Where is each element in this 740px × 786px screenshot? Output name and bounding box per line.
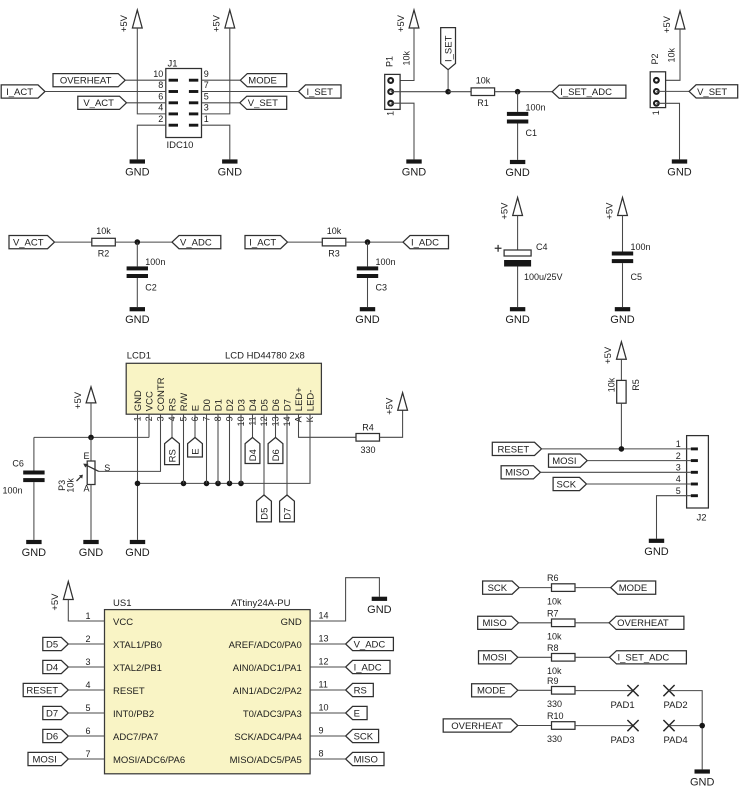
wire US1 pin 14 GND bbox=[310, 578, 379, 621]
potentiometer P2 10k bbox=[650, 72, 665, 108]
svg-text:5: 5 bbox=[204, 92, 209, 102]
svg-text:+5V: +5V bbox=[662, 15, 673, 33]
resistor R3 10k bbox=[322, 238, 346, 246]
svg-text:T0/ADC3/PA3: T0/ADC3/PA3 bbox=[243, 709, 302, 720]
svg-text:D6: D6 bbox=[271, 449, 282, 461]
svg-text:100u/25V: 100u/25V bbox=[524, 272, 563, 282]
svg-text:+5V: +5V bbox=[396, 14, 407, 32]
svg-text:XTAL1/PB0: XTAL1/PB0 bbox=[113, 640, 162, 651]
wire RESET to US1 pin 4 bbox=[68, 689, 104, 691]
svg-text:R9: R9 bbox=[547, 676, 559, 686]
svg-text:CONTR: CONTR bbox=[156, 377, 167, 411]
net flag I_ADC (US1) bbox=[346, 660, 390, 673]
svg-text:I_ADC: I_ADC bbox=[354, 662, 382, 673]
svg-text:GND: GND bbox=[644, 546, 669, 558]
GND rail under LCD bbox=[138, 414, 311, 483]
svg-text:GND: GND bbox=[125, 314, 150, 326]
wire P2 bottom to ground bbox=[656, 103, 679, 159]
wire J1 pin 1 to ground bbox=[202, 125, 230, 159]
net flag SCK (R6) bbox=[483, 581, 519, 594]
ground (C4) bbox=[510, 307, 525, 311]
svg-text:6: 6 bbox=[158, 92, 163, 102]
net flag D6 (LCD) bbox=[268, 438, 283, 464]
svg-text:MOSI/ADC6/PA6: MOSI/ADC6/PA6 bbox=[113, 755, 185, 766]
svg-text:PAD2: PAD2 bbox=[664, 700, 688, 711]
svg-text:VCC: VCC bbox=[113, 617, 133, 628]
svg-text:100n: 100n bbox=[376, 257, 396, 267]
svg-text:7: 7 bbox=[85, 749, 90, 759]
wire +5V to US1 pin 1 bbox=[68, 600, 104, 622]
svg-text:+5V: +5V bbox=[499, 202, 510, 220]
resistor R10 330 bbox=[552, 722, 576, 730]
net flag I_ACT bbox=[1, 85, 45, 98]
net flag I_SET_ADC bbox=[552, 85, 626, 98]
net flag MODE (R9) bbox=[472, 684, 518, 697]
svg-text:GND: GND bbox=[79, 547, 104, 559]
svg-text:OVERHEAT: OVERHEAT bbox=[60, 76, 112, 87]
wire +5V to J1 pin 4 bbox=[137, 28, 166, 114]
svg-text:GND: GND bbox=[505, 167, 530, 179]
wire C3 to ground bbox=[367, 278, 369, 307]
svg-text:330: 330 bbox=[547, 699, 562, 709]
wire node down to C1 bbox=[517, 92, 519, 112]
svg-text:I_SET: I_SET bbox=[444, 35, 455, 62]
junction I_SET_ADC node bbox=[515, 89, 521, 95]
resistor R5 10k (vertical) bbox=[617, 380, 626, 403]
net flag MOSI (US1) bbox=[28, 752, 68, 765]
svg-text:10k: 10k bbox=[96, 226, 111, 236]
net flag RS (US1) bbox=[346, 683, 374, 696]
net flag D4 (LCD) bbox=[245, 438, 260, 464]
svg-text:OVERHEAT: OVERHEAT bbox=[451, 721, 503, 732]
net flag I_SET bbox=[299, 85, 342, 98]
svg-text:10: 10 bbox=[153, 69, 163, 79]
net flag D5 (LCD) bbox=[257, 495, 272, 522]
svg-text:6: 6 bbox=[85, 726, 90, 736]
svg-text:330: 330 bbox=[547, 734, 562, 744]
svg-text:I_ADC: I_ADC bbox=[411, 238, 439, 249]
svg-text:LCD1: LCD1 bbox=[127, 351, 151, 362]
wire LCD pin 13 to D6 flag bbox=[275, 414, 277, 437]
svg-text:10k: 10k bbox=[327, 226, 342, 236]
net flag MISO (J2) bbox=[501, 466, 540, 479]
wire J2 pin 5 to ground bbox=[657, 496, 691, 539]
net flag E (US1) bbox=[346, 706, 368, 719]
svg-text:V_ACT: V_ACT bbox=[83, 98, 114, 109]
svg-text:P1: P1 bbox=[384, 56, 394, 67]
svg-text:10k: 10k bbox=[607, 377, 617, 392]
svg-text:8: 8 bbox=[158, 80, 163, 90]
resistor R6 10k bbox=[552, 584, 576, 592]
net flag V_ADC bbox=[172, 236, 221, 249]
svg-text:RESET: RESET bbox=[498, 444, 530, 455]
svg-text:5: 5 bbox=[85, 703, 90, 713]
svg-text:D5: D5 bbox=[259, 399, 270, 411]
net flag D6 (US1) bbox=[43, 729, 69, 742]
svg-text:LED-: LED- bbox=[305, 390, 316, 412]
svg-text:SCK: SCK bbox=[354, 731, 374, 742]
svg-text:10k: 10k bbox=[547, 632, 562, 642]
resistor R8 10k bbox=[552, 654, 576, 662]
svg-text:LCD HD44780 2x8: LCD HD44780 2x8 bbox=[225, 351, 305, 362]
svg-text:GND: GND bbox=[125, 167, 150, 179]
ground (J1 left) bbox=[130, 159, 145, 163]
net flag V_SET bbox=[240, 96, 287, 109]
wire V_ACT to J1 pin 6 bbox=[127, 102, 166, 104]
power +5V (C5) bbox=[618, 198, 628, 216]
svg-text:8: 8 bbox=[319, 748, 324, 758]
svg-text:MODE: MODE bbox=[619, 583, 648, 594]
svg-text:A: A bbox=[84, 483, 90, 493]
wire LCD pin 6 to E flag bbox=[194, 414, 196, 437]
junction I_SET node bbox=[445, 89, 451, 95]
svg-text:PAD4: PAD4 bbox=[664, 735, 688, 746]
svg-text:XTAL2/PB1: XTAL2/PB1 bbox=[113, 663, 162, 674]
svg-text:1: 1 bbox=[386, 111, 396, 116]
svg-text:E: E bbox=[190, 405, 201, 411]
wire LCD pin 5 R/W to GND rail bbox=[183, 414, 185, 483]
net flag I_SET_ADC (R8) bbox=[610, 651, 687, 664]
svg-text:E: E bbox=[354, 708, 360, 719]
resistor R4 330 bbox=[356, 434, 380, 442]
svg-text:5: 5 bbox=[676, 486, 681, 496]
svg-text:+5V: +5V bbox=[603, 346, 614, 364]
wire P1 wiper to junction bbox=[391, 91, 448, 93]
net flag OVERHEAT bbox=[53, 74, 125, 87]
svg-text:GND: GND bbox=[367, 604, 392, 616]
power +5V (J1 left) bbox=[132, 10, 142, 28]
svg-text:ATtiny24A-PU: ATtiny24A-PU bbox=[231, 598, 291, 609]
ground (J1 right) bbox=[222, 159, 237, 163]
wire MOSI to US1 pin 7 bbox=[68, 758, 104, 760]
wire OVERHEAT to R10 bbox=[518, 725, 552, 727]
net flag RESET (J2) bbox=[492, 442, 541, 455]
wires LCD pins 7-10 to GND rail bbox=[206, 414, 208, 483]
svg-text:D5: D5 bbox=[46, 639, 58, 650]
svg-text:4: 4 bbox=[158, 103, 163, 113]
svg-text:GND: GND bbox=[402, 167, 427, 179]
power +5V (R5) bbox=[617, 342, 627, 360]
solder pad PAD3 bbox=[627, 720, 638, 731]
svg-text:2: 2 bbox=[158, 114, 163, 124]
wire MOSI to R8 bbox=[518, 656, 552, 658]
connector J2 bbox=[687, 436, 709, 508]
ground (C6) bbox=[26, 540, 41, 544]
wire +5V to C4 bbox=[517, 216, 519, 251]
wire node down to C2 bbox=[136, 242, 138, 266]
svg-text:MOSI: MOSI bbox=[33, 754, 57, 765]
svg-text:14: 14 bbox=[319, 610, 329, 620]
wire SCK to R6 bbox=[519, 587, 551, 589]
svg-text:3: 3 bbox=[676, 463, 681, 473]
wire +5V to J1 pin 3 bbox=[202, 28, 230, 114]
svg-text:10k: 10k bbox=[547, 596, 562, 606]
wire R1 to I_SET_ADC node bbox=[495, 91, 553, 93]
wire C6 to ground bbox=[33, 482, 35, 540]
svg-text:V_SET: V_SET bbox=[248, 98, 278, 109]
resistor R1 10k bbox=[471, 88, 495, 96]
resistor R2 10k bbox=[92, 238, 116, 246]
svg-text:+5V: +5V bbox=[119, 14, 130, 32]
wire MODE to R9 bbox=[518, 689, 552, 691]
net flag D5 (US1) bbox=[43, 637, 69, 650]
ground (P2) bbox=[672, 159, 687, 163]
wire I_ACT to R3 bbox=[288, 241, 323, 243]
power +5V (C4) bbox=[513, 198, 523, 216]
junction RESET/R5 bbox=[619, 446, 625, 452]
svg-text:GND: GND bbox=[355, 314, 380, 326]
svg-text:9: 9 bbox=[204, 69, 209, 79]
svg-text:10: 10 bbox=[319, 702, 329, 712]
svg-text:US1: US1 bbox=[113, 598, 131, 609]
svg-text:GND: GND bbox=[281, 617, 302, 628]
svg-text:13: 13 bbox=[319, 633, 329, 643]
svg-text:V_SET: V_SET bbox=[697, 87, 727, 98]
wire +5V down to +5V rail bbox=[90, 403, 92, 438]
net flag V_ACT (R2) bbox=[9, 236, 55, 249]
svg-text:10k: 10k bbox=[401, 51, 411, 66]
svg-text:LED+: LED+ bbox=[294, 387, 305, 411]
power +5V (LCD VCC) bbox=[86, 387, 96, 403]
wire US1 pin 10 to E bbox=[310, 712, 346, 714]
net flag OVERHEAT (R10) bbox=[443, 719, 518, 732]
wire LCD pin 12 to D5 flag bbox=[263, 414, 265, 495]
wire +5V to R5 bbox=[620, 359, 622, 380]
svg-text:D7: D7 bbox=[283, 508, 294, 520]
power +5V (US1 VCC) bbox=[63, 582, 73, 600]
svg-text:MODE: MODE bbox=[477, 686, 506, 697]
net flag I_ADC bbox=[403, 236, 449, 249]
wire LCD pin 15 A to R4 bbox=[299, 414, 357, 437]
svg-text:P2: P2 bbox=[650, 54, 660, 65]
net flag D4 (US1) bbox=[43, 660, 69, 673]
svg-text:D7: D7 bbox=[46, 708, 58, 719]
wire D4 to US1 pin 3 bbox=[68, 666, 104, 668]
svg-text:100n: 100n bbox=[631, 242, 651, 252]
svg-text:C6: C6 bbox=[12, 458, 24, 468]
power +5V (J1 right) bbox=[225, 10, 235, 28]
svg-text:SCK: SCK bbox=[557, 479, 577, 490]
svg-text:+5V: +5V bbox=[604, 202, 615, 220]
junction I_ADC node bbox=[365, 239, 371, 245]
svg-text:GND: GND bbox=[125, 547, 150, 559]
net flag RS (LCD) bbox=[165, 438, 180, 465]
svg-text:10k: 10k bbox=[547, 666, 562, 676]
ground (P3) bbox=[83, 540, 98, 544]
capacitor C1 100n bbox=[507, 112, 528, 116]
svg-text:J2: J2 bbox=[697, 513, 707, 524]
svg-text:RS: RS bbox=[167, 398, 178, 411]
net flag MISO (R7) bbox=[478, 616, 519, 629]
net flag D7 (LCD) bbox=[280, 495, 295, 522]
svg-text:R6: R6 bbox=[547, 573, 559, 583]
resistor R7 10k bbox=[552, 619, 576, 627]
svg-text:D3: D3 bbox=[236, 399, 247, 411]
net flag OVERHEAT (R7) bbox=[609, 616, 684, 629]
wire R5 to RESET net bbox=[620, 403, 622, 449]
svg-text:AIN1/ADC2/PA2: AIN1/ADC2/PA2 bbox=[233, 686, 302, 697]
svg-text:R7: R7 bbox=[547, 608, 559, 618]
wire D5 to US1 pin 2 bbox=[68, 643, 104, 645]
wire +5V to P2 top bbox=[656, 29, 680, 80]
svg-text:4: 4 bbox=[85, 680, 90, 690]
svg-text:+5V: +5V bbox=[73, 391, 84, 409]
svg-text:GND: GND bbox=[218, 167, 243, 179]
svg-text:D4: D4 bbox=[46, 662, 58, 673]
solder pad PAD4 bbox=[663, 720, 674, 731]
svg-text:MISO: MISO bbox=[354, 754, 378, 765]
wire PAD4 to ground line bbox=[669, 725, 702, 727]
svg-text:10k: 10k bbox=[66, 478, 76, 493]
wire SCK to J2 pin 4 bbox=[587, 483, 691, 485]
svg-text:V_ADC: V_ADC bbox=[354, 639, 386, 650]
svg-text:D4: D4 bbox=[248, 399, 259, 411]
svg-text:D1: D1 bbox=[213, 399, 224, 411]
ground (J2) bbox=[649, 539, 664, 543]
svg-text:GND: GND bbox=[610, 314, 635, 326]
svg-text:10k: 10k bbox=[476, 76, 491, 86]
svg-text:R2: R2 bbox=[98, 248, 110, 258]
svg-text:1: 1 bbox=[204, 114, 209, 124]
solder pad PAD2 bbox=[663, 685, 674, 696]
ground (C5) bbox=[615, 307, 630, 311]
svg-text:C1: C1 bbox=[526, 128, 538, 138]
wire US1 pin 12 to I_ADC bbox=[310, 666, 346, 668]
wire C4 to ground bbox=[517, 267, 519, 308]
wire LCD pin 4 to RS flag bbox=[171, 414, 173, 437]
wire +5V to P1 top bbox=[391, 28, 414, 81]
junction +5V rail bbox=[88, 435, 94, 441]
svg-text:D5: D5 bbox=[260, 508, 271, 520]
wire R9 to PAD1 bbox=[575, 690, 633, 692]
svg-text:MOSI: MOSI bbox=[552, 456, 576, 467]
ground (pads) bbox=[695, 769, 710, 773]
wire P2 wiper to V_SET bbox=[656, 90, 689, 92]
net flag V_ACT bbox=[78, 96, 127, 109]
svg-text:7: 7 bbox=[204, 80, 209, 90]
svg-text:1: 1 bbox=[85, 611, 90, 621]
svg-text:R4: R4 bbox=[362, 423, 374, 433]
svg-text:SCK: SCK bbox=[488, 583, 508, 594]
microcontroller US1 ATtiny24A-PU bbox=[105, 610, 311, 774]
net flag V_SET (P2) bbox=[689, 85, 738, 98]
svg-text:D7: D7 bbox=[282, 399, 293, 411]
wire C5 to ground bbox=[622, 263, 624, 307]
svg-text:RS: RS bbox=[168, 449, 179, 462]
net flag E (LCD) bbox=[188, 438, 203, 458]
svg-text:GND: GND bbox=[690, 777, 715, 786]
net flag SCK (J2) bbox=[553, 477, 586, 490]
svg-text:330: 330 bbox=[360, 445, 375, 455]
ground (US1) bbox=[372, 597, 387, 601]
wire RESET to J2 pin 1 bbox=[542, 448, 691, 450]
svg-text:SCK/ADC4/PA4: SCK/ADC4/PA4 bbox=[234, 732, 301, 743]
svg-text:V_ACT: V_ACT bbox=[13, 238, 44, 249]
wire US1 pin 8 to MISO bbox=[310, 758, 346, 760]
svg-text:MISO: MISO bbox=[505, 468, 529, 479]
capacitor C2 100n bbox=[127, 266, 148, 270]
ground (C1) bbox=[510, 160, 525, 164]
junction pads ground bbox=[699, 723, 705, 729]
svg-text:D6: D6 bbox=[46, 731, 58, 742]
wire LCD pin 14 to D7 flag bbox=[286, 414, 288, 495]
wire C2 to ground bbox=[136, 278, 138, 307]
svg-text:ADC7/PA7: ADC7/PA7 bbox=[113, 732, 158, 743]
wire J1 pin 9 to MODE bbox=[202, 79, 241, 81]
svg-text:+5V: +5V bbox=[212, 14, 223, 32]
svg-text:V_ADC: V_ADC bbox=[180, 238, 212, 249]
svg-text:VCC: VCC bbox=[144, 391, 155, 411]
svg-text:E: E bbox=[84, 451, 90, 461]
svg-text:GND: GND bbox=[505, 314, 530, 326]
svg-text:GND: GND bbox=[667, 167, 692, 179]
svg-text:RS: RS bbox=[354, 685, 367, 696]
svg-text:D2: D2 bbox=[225, 399, 236, 411]
svg-text:RESET: RESET bbox=[26, 685, 58, 696]
capacitor C3 100n bbox=[357, 266, 378, 270]
resistor R9 330 bbox=[552, 687, 576, 695]
net flag I_ACT (R3) bbox=[245, 236, 288, 249]
svg-text:C4: C4 bbox=[536, 242, 548, 252]
svg-text:3: 3 bbox=[85, 657, 90, 667]
net flag MISO (US1) bbox=[346, 752, 384, 765]
wire R6 to MODE bbox=[575, 587, 611, 589]
wire R8 to I_SET_ADC bbox=[575, 656, 610, 658]
wire junction to R1 bbox=[448, 91, 471, 93]
svg-text:I_SET: I_SET bbox=[307, 87, 334, 98]
net flag V_ADC (US1) bbox=[346, 637, 394, 650]
svg-text:MISO: MISO bbox=[482, 618, 506, 629]
wire US1 pin 11 to RS bbox=[310, 689, 346, 691]
svg-text:D4: D4 bbox=[248, 449, 259, 461]
svg-text:I_SET_ADC: I_SET_ADC bbox=[560, 87, 612, 98]
svg-text:C5: C5 bbox=[631, 272, 643, 282]
wire US1 pin 13 to V_ADC bbox=[310, 643, 346, 645]
wire node down to C3 bbox=[367, 242, 369, 266]
svg-text:3: 3 bbox=[204, 103, 209, 113]
wire R2 to V_ADC bbox=[115, 241, 172, 243]
ground (C3) bbox=[360, 307, 375, 311]
svg-text:MISO/ADC5/PA5: MISO/ADC5/PA5 bbox=[230, 755, 302, 766]
wire I_SET flag down to junction bbox=[447, 70, 449, 92]
wire P3 bottom to ground bbox=[90, 485, 92, 540]
svg-text:R1: R1 bbox=[477, 98, 489, 108]
wire LCD pin 2 VCC to rail bbox=[148, 414, 150, 437]
svg-text:J1: J1 bbox=[168, 58, 178, 69]
svg-text:R5: R5 bbox=[631, 379, 641, 391]
svg-text:100n: 100n bbox=[145, 257, 165, 267]
wire P1 bottom to ground bbox=[391, 103, 414, 159]
power +5V (P1) bbox=[409, 10, 419, 28]
wire MOSI to J2 pin 2 bbox=[587, 460, 691, 462]
svg-text:R10: R10 bbox=[547, 711, 564, 721]
svg-text:PAD3: PAD3 bbox=[611, 735, 635, 746]
wire OVERHEAT to J1 pin 10 bbox=[125, 79, 166, 81]
wire R3 to I_ADC bbox=[346, 241, 403, 243]
svg-text:GND: GND bbox=[133, 390, 144, 411]
svg-text:C3: C3 bbox=[376, 283, 388, 293]
wire rail elbow down to C6 bbox=[33, 437, 35, 470]
net flag MODE (R6) bbox=[611, 581, 656, 594]
wire R7 to OVERHEAT bbox=[575, 622, 609, 624]
svg-text:+5V: +5V bbox=[384, 397, 395, 415]
svg-text:100n: 100n bbox=[526, 102, 546, 112]
+5V rail under LCD bbox=[34, 436, 149, 438]
svg-text:1: 1 bbox=[676, 439, 681, 449]
svg-text:PAD1: PAD1 bbox=[611, 700, 635, 711]
svg-text:4: 4 bbox=[676, 474, 681, 484]
net flag D7 (US1) bbox=[43, 706, 69, 719]
